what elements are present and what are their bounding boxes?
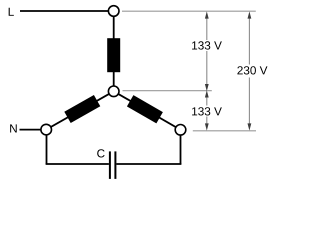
arrowhead down at middle reference (inner upper)	[205, 84, 209, 91]
wire star point to left node	[46, 91, 114, 129]
wire top node to winding U	[113, 16, 115, 40]
wire L to top node	[20, 10, 108, 12]
arrowhead down at bottom reference (outer)	[248, 123, 252, 130]
capacitor C left plate	[109, 151, 111, 179]
terminal label L	[9, 8, 14, 16]
wire left node down	[46, 135, 48, 164]
dimension line 230 V, segment below text	[248, 78, 250, 125]
arrowhead up at top reference (inner)	[205, 11, 209, 18]
node circle right	[175, 125, 186, 136]
reference line top (node L level)	[122, 10, 256, 12]
wire bottom left to capacitor	[46, 163, 109, 165]
reference line middle (star point level)	[123, 90, 212, 92]
dimension line 133 V lower, segment above text	[206, 97, 208, 106]
voltage label 133 V lower	[192, 107, 222, 115]
node circle left (terminal N)	[41, 124, 52, 135]
dimension line 133 V upper, segment below text	[206, 51, 208, 85]
capacitor C right plate	[114, 151, 116, 179]
voltage label 230 V	[237, 66, 267, 74]
wire winding U to star point	[113, 72, 115, 87]
winding V (left diagonal black rectangle)	[64, 95, 100, 123]
voltage label 133 V upper	[192, 41, 222, 49]
dimension line 133 V lower, segment below text	[206, 117, 208, 125]
arrowhead up at top reference (outer)	[248, 11, 252, 18]
wire capacitor to bottom right	[116, 163, 181, 165]
winding U (vertical black rectangle)	[107, 38, 120, 72]
dimension line 230 V, segment above text	[248, 18, 250, 65]
arrowhead up at middle reference (inner lower)	[205, 90, 209, 97]
node circle star point	[108, 86, 119, 97]
capacitor label C	[97, 149, 104, 157]
reference line bottom (right node level)	[193, 130, 256, 132]
node circle top (terminal L)	[108, 6, 119, 17]
wire N to left node	[20, 129, 42, 131]
wire right node down	[180, 135, 182, 164]
arrowhead down at bottom reference (inner)	[205, 123, 209, 130]
terminal label N	[10, 124, 17, 132]
dimension line 133 V upper, segment above text	[206, 18, 208, 41]
wire star point to right node	[114, 91, 181, 130]
winding W (right diagonal black rectangle)	[127, 95, 163, 123]
